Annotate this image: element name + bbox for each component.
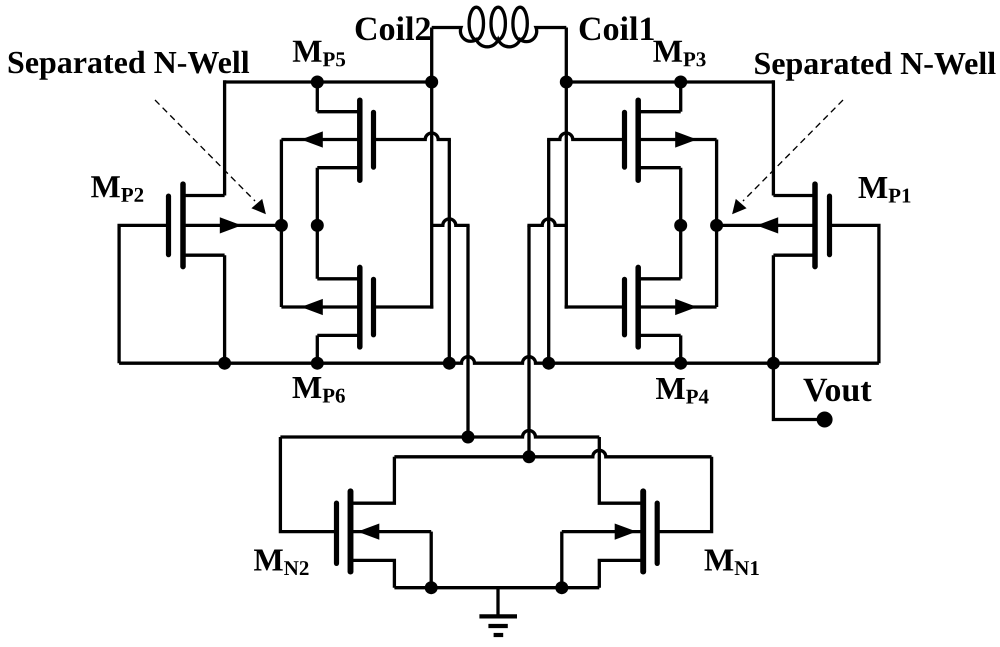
arrow MN2 body (NMOS) — [358, 524, 380, 540]
wire MP4 drain stub — [638, 277, 681, 280]
label MP6 — [293, 377, 345, 403]
wire MP6 body line — [281, 305, 359, 308]
wire MP5 drain vertical — [316, 82, 319, 112]
transistor MN2 gate plate — [334, 503, 339, 563]
arrow MP1 body (PMOS) — [756, 217, 778, 233]
wire MP5 gate vertical to Vout rail — [448, 140, 451, 364]
node dot ground / MN1 body — [555, 581, 568, 594]
wire MP3 source to MP4 drain vertical — [679, 168, 682, 279]
node dot Vout rail / MP3 gate — [542, 357, 555, 370]
wire MN2 body vertical — [430, 532, 433, 588]
wire top-right corner down to MP1 drain — [772, 80, 775, 195]
wire MP3 drain vertical — [679, 82, 682, 112]
wire MP2 drain stub — [183, 194, 225, 197]
wire MP4 source vertical — [679, 335, 682, 363]
wire MP1 body line — [717, 224, 815, 227]
wire separated N-well vertical left — [280, 140, 283, 308]
transistor MP1 channel — [812, 184, 818, 267]
wire MN1 source stub — [599, 560, 643, 587]
node dot Vout rail / MP5 gate — [443, 357, 456, 370]
transistor MP1 gate plate — [827, 196, 832, 255]
arrow MP6 body (PMOS) — [301, 299, 323, 315]
wire MP1 source vertical — [772, 255, 775, 363]
transistor MN1 gate plate — [655, 503, 660, 563]
node dot N-well left — [275, 219, 288, 232]
node dot rail2 / branch Coil1 — [523, 450, 536, 463]
node dot ground / MN2 body — [425, 581, 438, 594]
wire MP2 gate lead — [119, 225, 168, 363]
wire Coil2 vertical (coil to MP6 gate) — [430, 28, 433, 309]
node dot Vout rail / MP6 source — [311, 357, 324, 370]
callout dashed arrow left — [155, 100, 255, 201]
node dot top rail / MP3 drain — [674, 76, 687, 89]
arrow MP2 body (PMOS) — [220, 217, 242, 233]
label MP2 — [91, 176, 143, 202]
wire separated N-well vertical right — [715, 140, 718, 308]
wire top-left corner down to MP2 drain — [223, 80, 226, 195]
wire MN2 drain stub — [351, 457, 395, 503]
label Vout — [803, 379, 871, 402]
wire MP2 body line — [183, 224, 281, 227]
arrow MP3 body (PMOS) — [675, 131, 697, 147]
wire MP3 source stub — [638, 166, 681, 169]
ground bar 1 — [479, 614, 517, 618]
arrow MN1 body (NMOS) — [615, 524, 637, 540]
wire MP3 body line — [638, 138, 716, 141]
wire NMOS rail 2 (MN2 drain / MN1 gate, hops MN1 drain wire) — [394, 450, 711, 456]
inductor loop 1 — [469, 7, 483, 39]
transistor MP6 gate plate — [371, 279, 376, 334]
inductor loop 2 — [491, 7, 505, 39]
node dot top rail / Coil1 — [560, 76, 573, 89]
wire top rail left — [225, 80, 432, 83]
wire top rail right — [566, 80, 773, 83]
label Separated N-Well left — [9, 51, 249, 80]
transistor MP2 channel — [180, 184, 186, 267]
inductor loop 3 — [513, 7, 527, 39]
wire Vout drop — [773, 363, 824, 419]
transistor MP2 gate plate — [166, 196, 171, 255]
wire MP6 source stub — [317, 334, 360, 337]
wire MP1 gate lead — [830, 225, 879, 363]
ground bar 3 — [494, 633, 504, 637]
wire MN1 body line — [562, 530, 643, 533]
wire ground rail — [394, 586, 599, 589]
transistor MN1 channel — [640, 491, 646, 571]
label Coil2 — [356, 16, 430, 40]
wire MP1 drain stub — [773, 194, 815, 197]
wire MP6 drain stub — [317, 277, 360, 280]
node dot top rail / MP5 drain — [311, 76, 324, 89]
wire MN1 body vertical — [560, 532, 563, 588]
wire MP1 source stub — [773, 254, 815, 257]
transistor MP3 channel — [635, 100, 641, 180]
wire MP3 gate vertical to Vout rail — [547, 140, 550, 364]
callout dashed arrow right — [743, 100, 843, 201]
label MP3 — [653, 41, 705, 67]
wire MP5 gate lead (hops Coil2 wire) — [374, 133, 451, 140]
node dot MP3 source / MP4 drain / MP1 body — [674, 219, 687, 232]
transistor MP5 gate plate — [371, 112, 376, 167]
transistor MP6 channel — [357, 267, 363, 347]
transistor MP3 gate plate — [622, 112, 627, 167]
node dot Vout rail / MP4 source — [674, 357, 687, 370]
transistor MP4 gate plate — [622, 279, 627, 334]
wire MP6 gate lead to Coil2 — [374, 305, 434, 308]
wire MP5 drain stub — [317, 110, 360, 113]
wire MN2 body line — [351, 530, 432, 533]
wire MP5 body line — [281, 138, 359, 141]
wire MP6 source vertical — [316, 335, 319, 363]
wire MP4 source stub — [638, 334, 681, 337]
wire Vout rail (hops two branch wires) — [119, 357, 879, 364]
wire MN2 source stub — [351, 560, 395, 587]
label Separated N-Well right — [755, 52, 995, 81]
label MP1 — [859, 177, 911, 203]
ground bar 2 — [488, 624, 507, 628]
wire branch Coil2 to NMOS (vertical) — [466, 225, 469, 437]
wire MP3 gate lead (hops Coil1 wire) — [547, 133, 624, 140]
wire MP4 body line — [638, 305, 716, 308]
wire MP2 source vertical — [223, 255, 226, 363]
wire branch Coil2 to NMOS (horizontal, hops MP5 gate wire) — [432, 219, 470, 226]
transistor MP5 channel — [357, 100, 363, 180]
wire MP2 source stub — [183, 254, 225, 257]
inductor coil lead left + bottom arcs — [432, 28, 567, 47]
wire MN1 drain wire — [599, 437, 643, 503]
label Coil1 — [580, 16, 654, 40]
wire MN2 gate lead — [280, 437, 336, 532]
node dot rail1 / branch Coil2 — [462, 431, 475, 444]
wire Coil1 vertical (coil to MP4 gate) — [565, 28, 568, 309]
node dot MP5 source / MP6 drain / MP2 body — [311, 219, 324, 232]
node dot top rail / Coil2 — [425, 76, 438, 89]
wire branch Coil1 to NMOS (horizontal, hops MP3 gate wire) — [527, 219, 566, 226]
terminal dot Vout — [817, 412, 833, 428]
node dot Vout rail / MP2 source — [218, 357, 231, 370]
wire branch Coil1 to NMOS (vertical) — [527, 225, 530, 456]
transistor MN2 channel — [348, 491, 354, 571]
ground stem — [496, 588, 499, 617]
transistor MP4 channel — [635, 267, 641, 347]
arrow MP4 body (PMOS) — [675, 299, 697, 315]
arrow MP5 body (PMOS) — [301, 131, 323, 147]
label MP5 — [293, 41, 345, 67]
label MN2 — [254, 550, 309, 576]
label MN1 — [705, 550, 759, 576]
wire MN1 gate lead — [657, 457, 711, 532]
label MP4 — [656, 378, 709, 404]
wire MP5 source stub — [317, 166, 360, 169]
wire NMOS rail 1 (MN2 gate / MN1 drain, hops branch R) — [280, 431, 599, 437]
node dot N-well right — [710, 219, 723, 232]
wire MP3 drain stub — [638, 110, 681, 113]
wire MP5 source to MP6 drain vertical — [316, 168, 319, 279]
node dot Vout rail / MP1 source — [767, 357, 780, 370]
wire MP4 gate lead to Coil1 — [565, 305, 625, 308]
